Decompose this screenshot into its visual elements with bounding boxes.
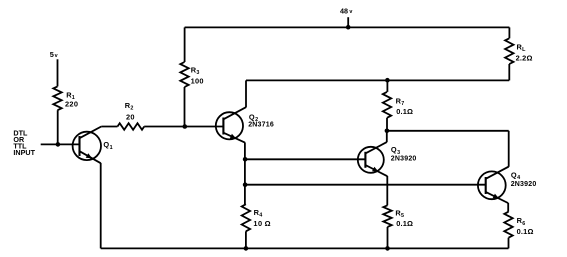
wire Q3 emitter down to R5 (386, 176, 388, 205)
svg-text:1: 1 (110, 145, 113, 151)
wire Q3 collector up to node (386, 131, 388, 142)
svg-text:Q: Q (103, 140, 109, 149)
wire Q2 emitter down to R4 (244, 142, 246, 204)
wire top rail to RL (508, 27, 510, 38)
svg-text:0.1Ω: 0.1Ω (396, 107, 413, 116)
wire Q1 emitter down to ground rail (100, 163, 102, 249)
node junction dot R3/R2/Q2 base (183, 124, 188, 129)
wire R4 bottom to ground rail (245, 231, 247, 248)
wire input to Q1 base (41, 143, 80, 145)
wire R6 bottom to ground rail (508, 238, 510, 249)
transistor Q4 (478, 167, 509, 203)
node junction dot 48v on top rail (346, 25, 351, 30)
transistor Q1 (73, 127, 102, 164)
wire collector node to Q4 collector (387, 130, 509, 132)
svg-text:20: 20 (126, 112, 135, 121)
svg-text:L: L (522, 47, 526, 53)
svg-text:5: 5 (50, 50, 54, 59)
resistor RL (505, 38, 513, 64)
wire collector bus to R7 (386, 80, 388, 92)
wire 48v stub (347, 17, 349, 27)
wire Q2 collector up to H2 (245, 80, 247, 107)
svg-text:2N3920: 2N3920 (511, 181, 537, 188)
svg-text:INPUT: INPUT (13, 148, 35, 157)
resistor R1 (53, 86, 61, 110)
wire Q2 emitter node to Q3 base (245, 158, 365, 160)
svg-text:2N3716: 2N3716 (248, 121, 274, 128)
resistor R7 (383, 92, 391, 118)
wire collector bus Q2 to RL (246, 79, 509, 81)
wire top rail down to R3 (184, 27, 186, 62)
resistor R6 (504, 212, 512, 238)
wire top 48V rail (185, 26, 510, 28)
node junction dot Q3/Q4 collectors (385, 129, 390, 134)
wire R7 bottom to collector node (386, 118, 388, 131)
svg-text:2: 2 (130, 106, 133, 112)
svg-text:10 Ω: 10 Ω (253, 219, 271, 228)
node input junction dot (56, 142, 61, 147)
node junction dot R4 ground (244, 246, 249, 251)
svg-text:v: v (55, 53, 58, 59)
resistor R4 (242, 204, 250, 231)
svg-text:v: v (349, 9, 352, 15)
node DTL OR TTL INPUT label (13, 129, 35, 158)
svg-text:Q: Q (249, 113, 255, 122)
svg-text:2N3920: 2N3920 (391, 156, 417, 163)
svg-text:2.2Ω: 2.2Ω (516, 54, 533, 63)
svg-text:3: 3 (196, 70, 199, 76)
resistor R2 (118, 123, 145, 130)
wire Q4 emitter down to R6 (507, 203, 509, 212)
svg-text:100: 100 (191, 77, 204, 86)
wire RL bottom to collector bus (508, 64, 510, 80)
wire 5v to R1 (57, 59, 59, 86)
svg-text:Q: Q (391, 145, 397, 154)
node junction dot R7 top (385, 78, 390, 83)
wire R1 bottom to input node (57, 110, 59, 144)
wire R5 bottom to ground rail (387, 227, 389, 249)
svg-text:48: 48 (340, 6, 348, 15)
wire R2 to Q2 base (144, 126, 223, 128)
svg-text:4: 4 (259, 213, 262, 219)
resistor R3 (180, 62, 188, 87)
svg-text:6: 6 (522, 221, 525, 227)
svg-text:0.1Ω: 0.1Ω (517, 227, 534, 236)
node junction dot Q2 emitter / Q3 base (243, 157, 248, 162)
transistor Q2 (216, 107, 246, 142)
node junction dot R5 ground (385, 246, 390, 251)
svg-text:0.1Ω: 0.1Ω (396, 219, 413, 228)
wire Q2 emitter node to Q4 base (245, 184, 486, 186)
svg-text:Q: Q (511, 170, 517, 179)
svg-text:220: 220 (65, 100, 78, 109)
wire Q1 collector to R2 (101, 126, 117, 128)
resistor R5 (383, 205, 391, 227)
wire R3 bottom to base node (184, 87, 186, 127)
wire bottom ground rail (101, 247, 509, 249)
wire Q4 collector up to node wire (508, 131, 510, 167)
transistor Q3 (358, 142, 388, 176)
node junction dot Q2 emitter / Q4 base (243, 182, 248, 187)
